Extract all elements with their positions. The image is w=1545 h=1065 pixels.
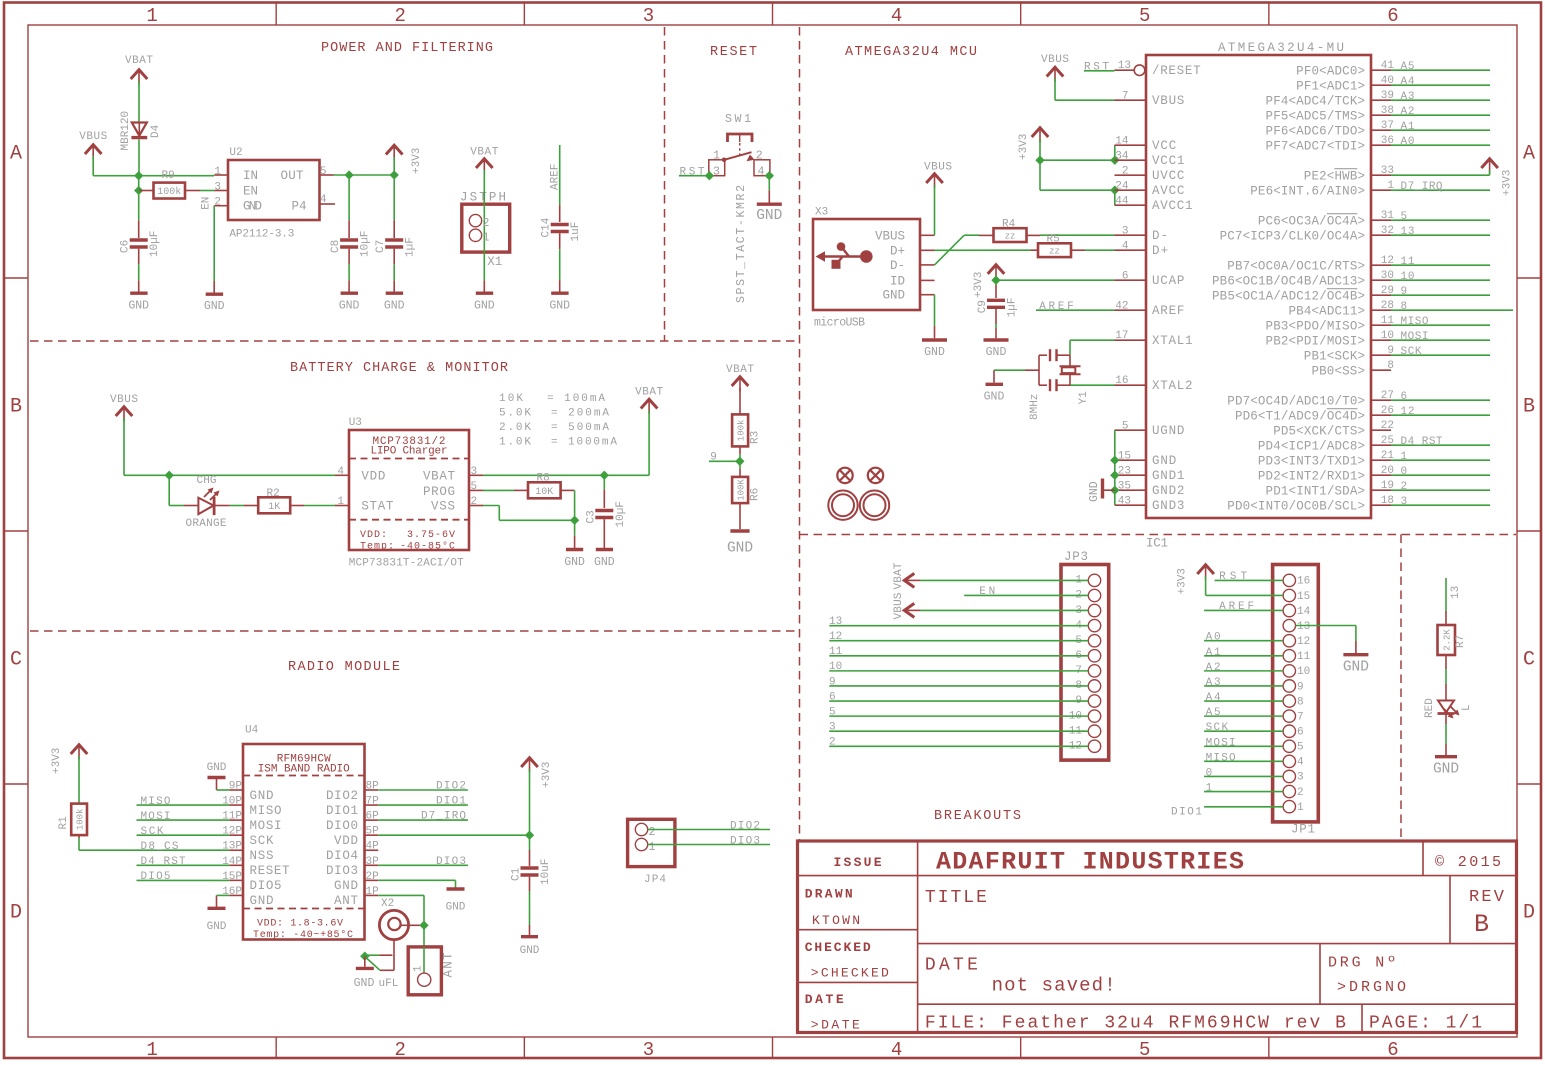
led L RED: [1438, 701, 1454, 713]
wire: [603, 475, 605, 489]
svg-text:2: 2: [483, 217, 490, 230]
svg-text:D4_RST: D4_RST: [141, 856, 186, 868]
svg-text:10µF: 10µF: [615, 501, 627, 527]
junction: [1035, 156, 1044, 165]
pin 5P VDD: [365, 834, 379, 836]
pin 1: [1088, 574, 1100, 586]
svg-text:DIO2: DIO2: [730, 820, 760, 832]
ground: [386, 292, 403, 295]
svg-text:BREAKOUTS: BREAKOUTS: [934, 809, 1021, 824]
svg-text:B: B: [1523, 396, 1535, 419]
svg-text:A3: A3: [1206, 677, 1221, 689]
svg-text:11: 11: [1401, 256, 1415, 268]
svg-text:D8_CS: D8_CS: [141, 841, 179, 853]
ground: [521, 935, 538, 938]
pin 8P DIO2: [365, 789, 379, 791]
wire: [1445, 655, 1447, 669]
wire: [648, 411, 650, 476]
svg-text:SCK: SCK: [141, 826, 164, 838]
svg-text:VBUS: VBUS: [893, 592, 905, 619]
svg-text:TITLE: TITLE: [925, 888, 987, 908]
svg-text:PB5<OC1A/ADC12/OC4B>: PB5<OC1A/ADC12/OC4B>: [1212, 289, 1365, 303]
svg-text:AVCC1: AVCC1: [1152, 199, 1193, 213]
svg-text:DIO1: DIO1: [326, 804, 358, 818]
svg-text:34: 34: [1115, 151, 1129, 163]
svg-text:D: D: [10, 902, 22, 925]
pin 35: [1115, 489, 1146, 491]
svg-text:RESET: RESET: [250, 864, 290, 878]
svg-text:C: C: [10, 649, 22, 672]
wire: [920, 579, 1088, 581]
svg-text:5: 5: [1122, 421, 1129, 433]
wire: [1204, 685, 1283, 687]
svg-text:PB6<OC1B/OC4B/ADC13>: PB6<OC1B/OC4B/ADC13>: [1212, 274, 1365, 288]
junction: [1110, 156, 1119, 165]
wire: [217, 789, 230, 791]
wire: [709, 460, 740, 462]
mounting hole M3: [828, 491, 857, 520]
svg-text:9: 9: [1297, 681, 1304, 693]
junction: [765, 171, 774, 180]
svg-text:A4: A4: [1206, 692, 1221, 704]
wire: [1204, 775, 1283, 777]
svg-text:IC1: IC1: [1146, 537, 1168, 551]
pin 2: [1283, 785, 1295, 797]
svg-text:1: 1: [146, 5, 157, 27]
svg-text:15: 15: [1118, 451, 1131, 463]
ground: [216, 895, 218, 907]
svg-text:10K: 10K: [499, 393, 523, 405]
svg-text:GND: GND: [520, 945, 540, 957]
pin 12: [1088, 740, 1100, 752]
voltage regulator U2 AP2112-3.3: [228, 160, 320, 220]
wire: [378, 879, 455, 881]
wire: [935, 235, 965, 265]
svg-text:C: C: [1523, 649, 1535, 672]
pin 3: [1088, 604, 1100, 616]
svg-text:ISM BAND RADIO: ISM BAND RADIO: [258, 764, 350, 776]
svg-text:PD1<INT1/SDA>: PD1<INT1/SDA>: [1266, 484, 1365, 498]
pin 6: [1283, 725, 1295, 737]
pin 21 net 1: [1371, 459, 1391, 461]
wire: [1040, 189, 1115, 191]
wire: [1204, 640, 1283, 642]
pin 3: [469, 474, 483, 476]
svg-text:0: 0: [1206, 767, 1213, 779]
pin 34: [1115, 159, 1147, 161]
pin 3: [1283, 770, 1295, 782]
svg-text:UGND: UGND: [1152, 424, 1184, 438]
svg-text:2: 2: [1122, 166, 1129, 178]
wire: [768, 176, 770, 191]
wire: [1204, 700, 1283, 702]
pin 19 net 2: [1371, 489, 1391, 491]
pin 2P GND: [365, 879, 379, 881]
svg-text:GND: GND: [204, 300, 225, 313]
svg-text:POWER AND FILTERING: POWER AND FILTERING: [321, 41, 493, 56]
supply +3V3: [1197, 565, 1214, 574]
junction: [705, 171, 714, 180]
svg-text:5P: 5P: [366, 826, 380, 838]
pin 9: [1088, 695, 1100, 707]
wire: [1215, 579, 1283, 581]
pin 4: [335, 474, 349, 476]
svg-text:DIO0: DIO0: [326, 819, 358, 833]
svg-text:2.0K: 2.0K: [499, 422, 531, 434]
svg-text:A5: A5: [1206, 707, 1221, 719]
svg-text:17: 17: [1115, 330, 1128, 342]
svg-text:REV: REV: [1469, 888, 1505, 907]
svg-text:13: 13: [1118, 60, 1131, 72]
svg-text:PB2<PDI/MOSI>: PB2<PDI/MOSI>: [1266, 334, 1365, 348]
svg-text:ORANGE: ORANGE: [186, 518, 227, 530]
pin 2: [1115, 174, 1147, 176]
wire: [829, 700, 1088, 702]
svg-text:C9: C9: [977, 300, 989, 313]
svg-text:6: 6: [1387, 5, 1398, 27]
pin 24: [1115, 189, 1147, 191]
supply +3V3: [988, 265, 1005, 274]
svg-text:VBAT: VBAT: [635, 387, 663, 399]
svg-text:GND: GND: [549, 300, 570, 313]
pin 11: [1283, 650, 1295, 662]
svg-text:KTOWN: KTOWN: [812, 913, 860, 928]
svg-text:X3: X3: [815, 207, 828, 219]
supply +3V3: [386, 145, 403, 154]
wire: [1204, 730, 1283, 732]
svg-text:3: 3: [471, 466, 478, 478]
svg-text:PF6<ADC6/TDO>: PF6<ADC6/TDO>: [1266, 124, 1365, 138]
svg-text:3: 3: [1401, 496, 1408, 508]
junction: [165, 471, 174, 480]
svg-text:4: 4: [758, 165, 765, 178]
wire: [529, 835, 531, 850]
svg-text:GND: GND: [1088, 481, 1101, 502]
svg-text:8: 8: [1387, 360, 1394, 372]
svg-text:EN: EN: [243, 184, 258, 198]
wire: [995, 276, 997, 281]
svg-text:A: A: [10, 143, 22, 166]
svg-text:Y1: Y1: [1078, 391, 1090, 405]
capacitor C1 10uF: [521, 866, 539, 869]
svg-text:AVCC: AVCC: [1152, 184, 1184, 198]
svg-text:VBUS: VBUS: [1041, 54, 1069, 66]
wire: [529, 769, 531, 835]
mounting hole M4: [860, 491, 889, 520]
svg-text:8P: 8P: [366, 781, 380, 793]
wire: [185, 190, 200, 192]
svg-text:XTAL2: XTAL2: [1152, 379, 1193, 393]
svg-text:23: 23: [1118, 466, 1131, 478]
pin 7: [1283, 710, 1295, 722]
resistor R8 10K: [514, 489, 528, 491]
svg-text:3: 3: [1122, 226, 1129, 238]
svg-text:13: 13: [1297, 621, 1310, 633]
svg-text:3: 3: [1297, 772, 1304, 784]
svg-text:GND: GND: [882, 289, 905, 303]
svg-text:22: 22: [1381, 420, 1394, 432]
pin 14P RESET: [229, 864, 243, 866]
svg-text:PE2<HWB>: PE2<HWB>: [1304, 169, 1365, 183]
svg-text:DIO3: DIO3: [326, 864, 358, 878]
svg-text:GND: GND: [986, 346, 1007, 359]
capacitor C8 10uF: [340, 238, 358, 241]
svg-text:1: 1: [713, 150, 720, 163]
pin 10P MISO: [229, 804, 243, 806]
svg-text:2: 2: [395, 5, 406, 27]
junction: [390, 170, 399, 179]
svg-text:ADAFRUIT INDUSTRIES: ADAFRUIT INDUSTRIES: [936, 848, 1244, 877]
pin 4: [1088, 619, 1100, 631]
svg-text:+3V3: +3V3: [973, 272, 985, 298]
pin 36 net A0: [1371, 144, 1391, 146]
svg-text:24: 24: [1115, 181, 1129, 193]
svg-text:UCAP: UCAP: [1152, 274, 1184, 288]
svg-text:>DATE: >DATE: [811, 1018, 860, 1033]
svg-text:5.0K: 5.0K: [499, 408, 531, 420]
svg-text:A1: A1: [1206, 647, 1221, 659]
ground: [206, 293, 223, 296]
svg-text:IN: IN: [243, 169, 258, 183]
svg-text:ID: ID: [890, 274, 905, 288]
pin 6 UCAP: [1115, 279, 1147, 281]
svg-text:C8: C8: [330, 240, 342, 253]
svg-text:+3V3: +3V3: [541, 762, 553, 788]
pin 4P DIO4: [365, 849, 379, 851]
svg-text:A5: A5: [1401, 61, 1415, 73]
svg-text:BATTERY CHARGE & MONITOR: BATTERY CHARGE & MONITOR: [290, 361, 508, 376]
pin 1P ANT: [365, 894, 379, 896]
pin 1: [335, 505, 349, 507]
wire: [1070, 339, 1115, 341]
svg-text:2: 2: [395, 1039, 406, 1061]
ground: [596, 548, 613, 551]
wire: [137, 819, 230, 821]
pin 11P MOSI: [229, 819, 243, 821]
svg-text:B: B: [1474, 910, 1489, 939]
pin 13 /RESET with bubble: [1134, 65, 1145, 76]
svg-text:CHG: CHG: [197, 475, 217, 487]
pin 23: [1115, 474, 1146, 476]
svg-text:+3V3: +3V3: [1177, 568, 1189, 594]
svg-text:A: A: [1523, 143, 1535, 166]
svg-text:PE6<INT.6/AIN0>: PE6<INT.6/AIN0>: [1250, 184, 1365, 198]
pin 18 net 3: [1371, 504, 1391, 506]
wire: [829, 730, 1088, 732]
wire: [739, 503, 741, 529]
svg-text:DIO4: DIO4: [326, 849, 358, 863]
svg-text:GND: GND: [243, 200, 262, 214]
svg-text:ISSUE: ISSUE: [834, 855, 882, 870]
svg-text:1µF: 1µF: [405, 237, 417, 257]
wire: [92, 156, 94, 176]
pin 10: [1283, 665, 1295, 677]
svg-text:+3V3: +3V3: [1502, 170, 1514, 196]
junction: [1110, 186, 1119, 195]
svg-text:PB4<ADC11>: PB4<ADC11>: [1289, 304, 1366, 318]
junction: [134, 186, 143, 195]
svg-text:VBAT: VBAT: [893, 562, 905, 589]
svg-text:PD4<ICP1/ADC8>: PD4<ICP1/ADC8>: [1258, 439, 1365, 453]
resistor R1 100k: [71, 804, 87, 836]
pin 15P DIO5: [229, 879, 243, 881]
pin 8: [1371, 369, 1391, 371]
svg-text:3: 3: [643, 1039, 654, 1061]
pin 8: [1088, 680, 1100, 692]
wire: [138, 140, 140, 176]
svg-text:D7_IRQ: D7_IRQ: [1401, 181, 1443, 193]
svg-text:A1: A1: [1401, 121, 1415, 133]
supply +3V3: [1481, 159, 1498, 168]
pin 14: [1283, 604, 1295, 616]
svg-text:10µF: 10µF: [360, 231, 372, 257]
svg-text:+3V3: +3V3: [51, 748, 63, 774]
svg-text:RADIO MODULE: RADIO MODULE: [288, 660, 400, 675]
svg-text:GND: GND: [594, 556, 615, 569]
pin 29 net 9: [1371, 294, 1391, 296]
svg-text:-40-85°C: -40-85°C: [400, 541, 455, 553]
pin 2: [1088, 589, 1100, 601]
svg-text:GND: GND: [128, 300, 149, 313]
svg-text:B: B: [10, 396, 22, 419]
junction: [360, 952, 369, 961]
svg-text:GND: GND: [384, 300, 405, 313]
svg-text:PF4<ADC4/TCK>: PF4<ADC4/TCK>: [1266, 94, 1365, 108]
svg-text:5: 5: [1401, 211, 1408, 223]
usb icon: [816, 242, 873, 268]
svg-text:PF0<ADC0>: PF0<ADC0>: [1296, 64, 1365, 78]
ground uFL: [364, 956, 366, 967]
pin 9 net SCK: [1371, 354, 1391, 356]
wire: [1204, 806, 1283, 808]
wire: [378, 864, 468, 866]
svg-text:ATMEGA32U4 MCU: ATMEGA32U4 MCU: [845, 45, 977, 60]
svg-text:PF1<ADC1>: PF1<ADC1>: [1296, 79, 1365, 93]
resistor R6 100K: [732, 477, 748, 503]
wire: [1054, 79, 1056, 101]
resistor R2 1K: [244, 505, 258, 507]
svg-text:10: 10: [1401, 271, 1415, 283]
svg-text:3.75-6V: 3.75-6V: [407, 530, 455, 541]
wire: [378, 804, 468, 806]
svg-text:1K: 1K: [268, 502, 280, 513]
svg-text:PB3<PDO/MISO>: PB3<PDO/MISO>: [1266, 319, 1365, 333]
svg-text:5: 5: [1297, 742, 1304, 754]
resistor R4 22: [979, 234, 994, 236]
wire: [213, 206, 215, 281]
pin 1: [214, 174, 228, 176]
svg-text:42: 42: [1115, 301, 1128, 313]
wire: [483, 170, 485, 204]
wire: [648, 844, 770, 846]
svg-text:13P: 13P: [222, 841, 242, 853]
svg-text:GND: GND: [207, 921, 227, 933]
svg-text:1: 1: [649, 841, 656, 854]
svg-text:7P: 7P: [366, 796, 380, 808]
svg-text:VCC: VCC: [1152, 139, 1176, 153]
pin 9P GND: [229, 789, 243, 791]
pin 3: [214, 190, 228, 192]
svg-text:PD5<XCK/CTS>: PD5<XCK/CTS>: [1273, 424, 1365, 438]
wire: [829, 625, 1088, 627]
svg-text:PD6<T1/ADC9/OC4D>: PD6<T1/ADC9/OC4D>: [1235, 409, 1365, 423]
wire: [559, 233, 561, 249]
svg-text:1: 1: [214, 166, 221, 178]
svg-text:MISO: MISO: [250, 804, 282, 818]
wire: [137, 834, 230, 836]
ground: [1343, 653, 1368, 656]
pin 7 VBUS: [1115, 99, 1147, 101]
svg-text:44: 44: [1115, 196, 1129, 208]
svg-text:PAGE: 1/1: PAGE: 1/1: [1369, 1014, 1482, 1034]
svg-text:R2: R2: [267, 488, 280, 500]
svg-text:STAT: STAT: [361, 499, 393, 513]
wire: [123, 418, 125, 475]
svg-text:1: 1: [1206, 783, 1213, 795]
svg-text:100k: 100k: [157, 186, 181, 198]
wire: [1204, 670, 1283, 672]
svg-text:4: 4: [1122, 241, 1129, 253]
pin 15: [1115, 459, 1146, 461]
wire: [348, 249, 350, 265]
svg-text:4: 4: [337, 466, 344, 478]
svg-text:14: 14: [1297, 606, 1311, 618]
svg-text:zz: zz: [1005, 232, 1016, 242]
wire: [1114, 145, 1116, 160]
pin 12: [1283, 635, 1295, 647]
svg-text:JP4: JP4: [644, 874, 666, 886]
svg-text:AP2112-3.3: AP2112-3.3: [229, 229, 294, 241]
connector ANT: [408, 947, 441, 995]
pin 27 net 6: [1371, 399, 1391, 401]
ground: [476, 292, 493, 295]
svg-text:A3: A3: [1401, 91, 1415, 103]
svg-text:GND: GND: [474, 300, 495, 313]
svg-text:U3: U3: [349, 417, 362, 429]
pin 8: [1283, 695, 1295, 707]
svg-text:VDD: VDD: [361, 469, 385, 483]
svg-text:PC6<OC3A/OC4A>: PC6<OC3A/OC4A>: [1258, 214, 1365, 228]
svg-text:A4: A4: [1401, 76, 1415, 88]
wire: [1085, 249, 1115, 251]
wire: [1084, 70, 1115, 72]
wire: [1039, 139, 1041, 190]
mounting hole M2: [868, 468, 883, 483]
wire: [574, 520, 576, 535]
svg-text:GND: GND: [727, 541, 753, 557]
svg-text:100K: 100K: [737, 479, 747, 501]
svg-text:8: 8: [1297, 696, 1304, 708]
ground: [566, 548, 583, 551]
svg-text:PB0<SS>: PB0<SS>: [1311, 364, 1365, 378]
supply +3V3: [1032, 128, 1049, 137]
svg-text:1: 1: [146, 1039, 157, 1061]
svg-text:9P: 9P: [229, 781, 243, 793]
pin 40 net A4: [1371, 84, 1391, 86]
svg-text:SCK: SCK: [250, 834, 274, 848]
svg-text:6: 6: [1387, 1039, 1398, 1061]
svg-text:2.2K: 2.2K: [1443, 629, 1453, 651]
pin 42 AREF: [1115, 309, 1147, 311]
svg-text:D-: D-: [890, 259, 905, 273]
svg-text:R9: R9: [162, 170, 175, 182]
resistor R5 22: [1031, 249, 1039, 251]
svg-text:RESET: RESET: [710, 45, 757, 60]
header JP1: [1273, 565, 1319, 822]
wire: [935, 249, 1031, 251]
wire: [603, 519, 605, 548]
svg-text:C1: C1: [511, 867, 523, 881]
